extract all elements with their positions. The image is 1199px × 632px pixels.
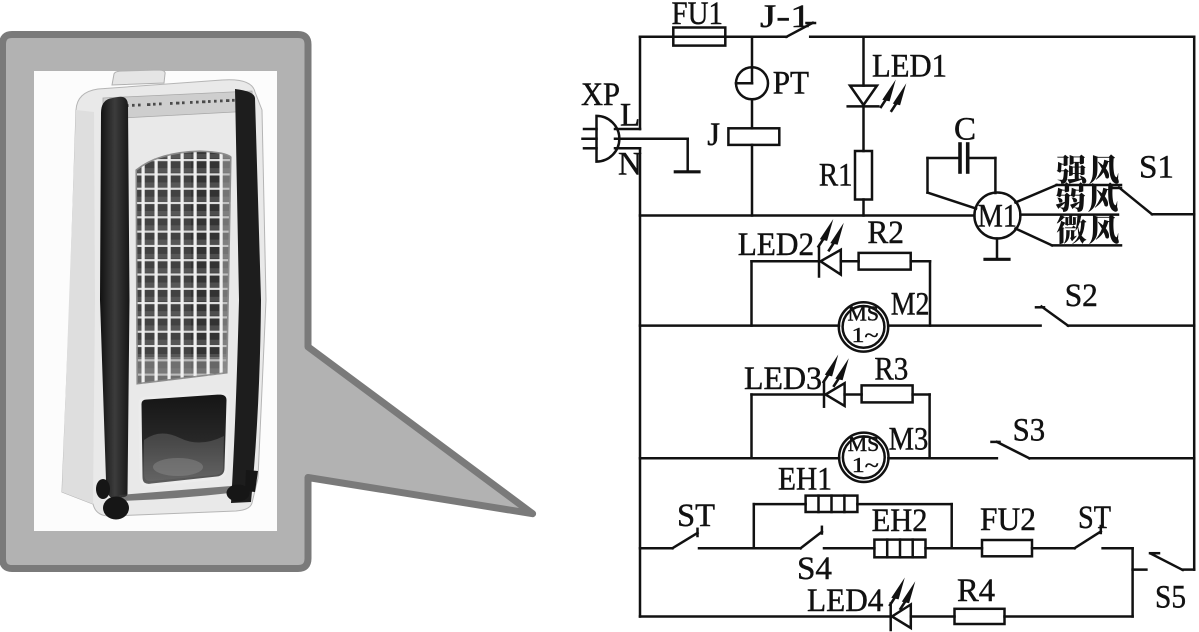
- label medium wind: [1056, 182, 1118, 212]
- wire S5 stub: [1133, 568, 1147, 571]
- motor M2: [839, 287, 930, 352]
- wire J coil to bus: [751, 145, 754, 216]
- wire R3 to branch right vertical: [913, 395, 930, 459]
- heater EH2: [872, 503, 928, 557]
- wire EH1 branch left vertical: [753, 504, 756, 548]
- wire R2 to branch right vertical: [911, 261, 930, 325]
- label strong wind: [1057, 154, 1119, 184]
- wire S2 to right bus: [1068, 324, 1194, 327]
- wire EH1 branch top right: [857, 503, 951, 506]
- heater EH1: [778, 462, 857, 513]
- svg-text:1~: 1~: [852, 323, 879, 347]
- resistor R4: [955, 573, 1005, 624]
- label gentle wind: [1057, 214, 1119, 244]
- gentle wind contact line: [1052, 244, 1121, 247]
- svg-text:N: N: [618, 147, 642, 183]
- LED LED1: [848, 49, 947, 111]
- bus row 2 right wire: [888, 324, 1040, 327]
- wire earth lead: [615, 139, 688, 171]
- svg-text:M1: M1: [978, 199, 1017, 235]
- relay coil J: [707, 117, 779, 153]
- right dark pillar: [231, 89, 261, 503]
- svg-text:J: J: [707, 117, 720, 153]
- wire capacitor right leg: [994, 158, 997, 193]
- appliance top handle: [112, 70, 165, 85]
- svg-text:M2: M2: [891, 287, 930, 323]
- wire ST to S4: [699, 547, 801, 550]
- wire LED3 branch left vertical: [750, 395, 753, 459]
- thermostat switch ST right: [1075, 500, 1111, 548]
- left dark pillar: [100, 97, 130, 498]
- air outlet grille: [130, 145, 235, 391]
- svg-text:S2: S2: [1065, 278, 1098, 314]
- svg-text:LED1: LED1: [872, 49, 947, 85]
- svg-text:EH1: EH1: [778, 462, 832, 498]
- wire LED4 to R4: [911, 615, 955, 618]
- switch S2: [1036, 278, 1098, 326]
- bottom bus wire left: [640, 615, 891, 618]
- svg-text:S5: S5: [1155, 580, 1186, 616]
- wire LED3 branch top: [752, 393, 825, 396]
- control panel strip: [103, 91, 253, 119]
- thermostat switch ST left: [673, 498, 716, 548]
- svg-text:FU1: FU1: [672, 0, 723, 32]
- earth bar: [675, 170, 699, 173]
- svg-text:R3: R3: [874, 352, 908, 388]
- resistor R2: [859, 215, 911, 270]
- svg-text:LED4: LED4: [807, 583, 883, 619]
- wire FU2 to ST right: [1032, 547, 1075, 550]
- wire LED1 to R1: [862, 106, 865, 151]
- svg-text:LED3: LED3: [744, 361, 822, 397]
- wire LED2 branch left vertical: [750, 261, 753, 325]
- motor M3: [839, 422, 928, 482]
- callout bubble: [3, 35, 533, 569]
- strong wind contact line: [1057, 184, 1121, 187]
- svg-text:R4: R4: [957, 573, 995, 609]
- M1 ground bar: [985, 258, 1009, 261]
- bus row 1 wire: [640, 214, 974, 217]
- product photo background: [34, 71, 277, 531]
- svg-text:XP: XP: [581, 77, 620, 113]
- bus row 2 left wire: [640, 324, 839, 327]
- wire M1 ground lead: [996, 239, 999, 259]
- switch S3: [992, 413, 1046, 459]
- switch S4: [797, 527, 832, 587]
- wire S5 to right bus corner: [1183, 568, 1195, 571]
- svg-text:S1: S1: [1139, 150, 1174, 186]
- wire LED2 to R2: [841, 260, 859, 263]
- wire M1 to strong-wind contact: [1016, 185, 1057, 203]
- caster wheels: [96, 470, 258, 520]
- wire heater row from left bus: [640, 547, 673, 550]
- wire S4 to EH2: [824, 547, 874, 550]
- svg-text:LED2: LED2: [738, 227, 815, 263]
- wire M1 to gentle-wind contact: [1016, 229, 1053, 246]
- bus row 3 left wire: [640, 457, 839, 460]
- switch S1: [1113, 150, 1174, 215]
- svg-text:EH2: EH2: [872, 503, 928, 539]
- wire LED2 branch top: [752, 260, 820, 263]
- switch J-1: [760, 0, 815, 37]
- wire top bus right segment: [810, 36, 1194, 39]
- wire S1 to right bus: [1152, 213, 1194, 216]
- wire EH1 branch top left: [754, 503, 806, 506]
- svg-text:ST: ST: [677, 498, 715, 534]
- wire M1 to medium-wind contact: [1020, 213, 1118, 216]
- svg-text:S4: S4: [797, 551, 832, 587]
- wire top bus left segment: [640, 36, 786, 39]
- wire ST right output: [1103, 548, 1133, 616]
- wire L lead: [615, 128, 640, 131]
- left bus wire (L segment): [639, 37, 642, 129]
- capacitor C: [928, 112, 996, 173]
- wire PT branch top: [751, 37, 754, 68]
- base shadow: [119, 486, 231, 501]
- wire LED3 to R3: [845, 393, 862, 396]
- fuse FU1: [672, 0, 726, 46]
- timer motor PT: [736, 66, 809, 102]
- wire R1 to bus: [862, 200, 865, 216]
- resistor R1: [819, 151, 872, 200]
- svg-text:M3: M3: [889, 422, 929, 458]
- LED LED2: [738, 219, 844, 277]
- wire N lead: [615, 147, 640, 150]
- LED LED3: [744, 355, 849, 407]
- wire capacitor left leg: [928, 158, 977, 209]
- svg-text:ST: ST: [1078, 500, 1111, 536]
- air cooler body: [62, 80, 266, 516]
- wire S3 to right bus: [1029, 457, 1194, 460]
- svg-text:C: C: [954, 112, 976, 148]
- resistor R3: [862, 352, 913, 403]
- LED LED4: [807, 578, 915, 631]
- wire EH1 branch right vertical: [950, 504, 953, 548]
- switch S5: [1150, 553, 1186, 615]
- svg-text:J-1: J-1: [760, 0, 811, 35]
- right bus wire: [1193, 37, 1196, 570]
- plug XP: [581, 77, 642, 183]
- wire LED1 branch top: [862, 37, 865, 86]
- svg-text:S3: S3: [1013, 413, 1046, 449]
- svg-text:R1: R1: [819, 158, 853, 194]
- motor M1: [974, 193, 1020, 239]
- svg-text:FU2: FU2: [980, 502, 1036, 538]
- fuse FU2: [980, 502, 1036, 556]
- svg-text:1~: 1~: [852, 453, 879, 477]
- bottom bus wire right: [1005, 615, 1133, 618]
- svg-text:PT: PT: [773, 66, 809, 102]
- wire PT to J coil: [751, 99, 754, 128]
- left bus wire (N segment): [639, 148, 642, 616]
- bus row 3 right wire: [888, 457, 997, 460]
- wire EH2 to FU2: [926, 547, 983, 550]
- svg-text:R2: R2: [867, 215, 904, 251]
- water tank opening: [140, 393, 228, 485]
